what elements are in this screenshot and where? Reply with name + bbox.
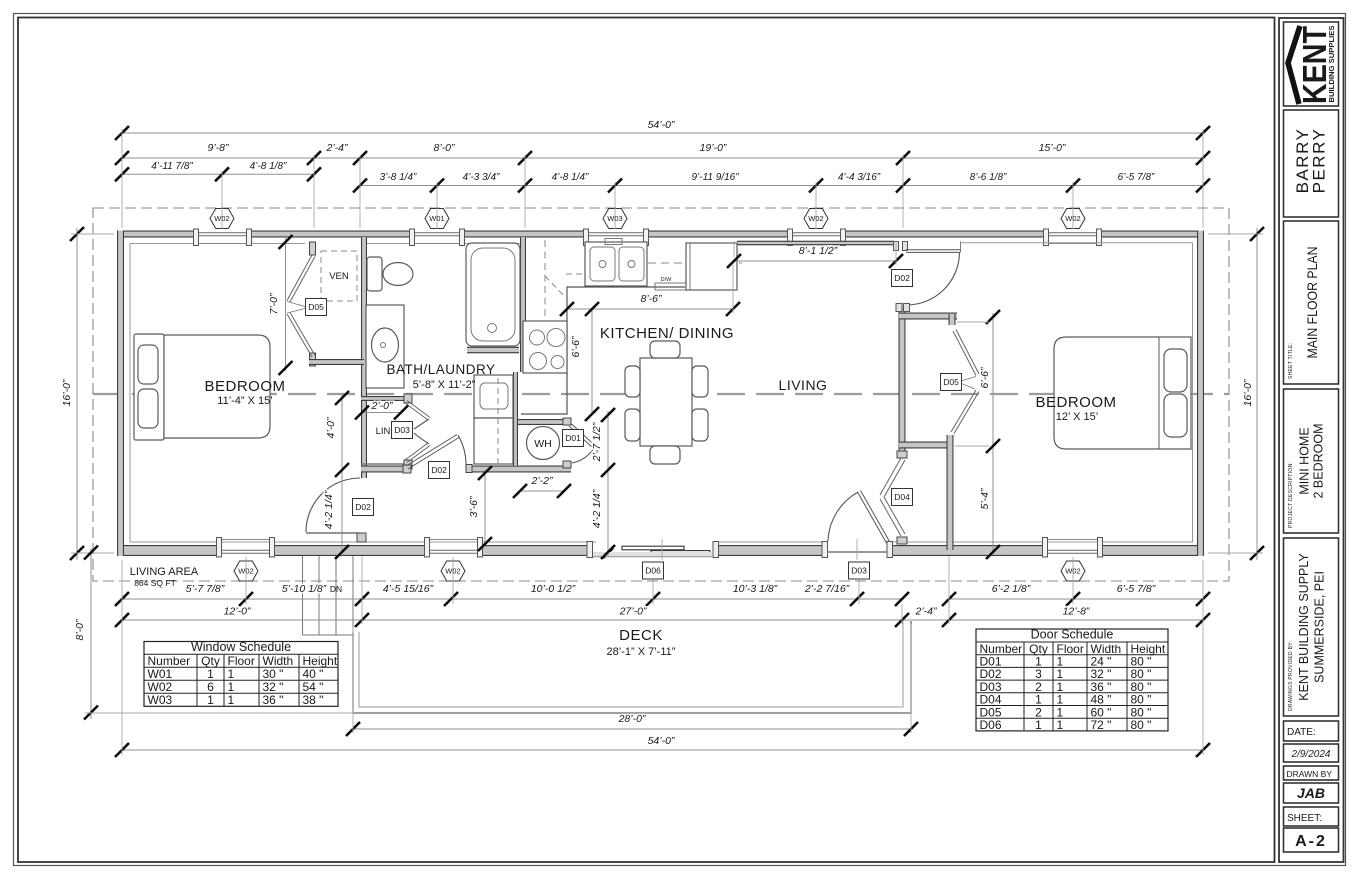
svg-text:3’-8 1/4”: 3’-8 1/4” xyxy=(380,172,417,183)
svg-text:W02: W02 xyxy=(238,567,253,576)
svg-text:2’-2”: 2’-2” xyxy=(530,475,553,487)
svg-text:1: 1 xyxy=(228,680,235,694)
svg-text:1: 1 xyxy=(207,667,214,681)
svg-text:6’-6”: 6’-6” xyxy=(979,367,991,389)
svg-text:2’-2 7/16”: 2’-2 7/16” xyxy=(804,583,850,595)
svg-text:VEN: VEN xyxy=(329,271,349,282)
svg-text:32 ": 32 " xyxy=(263,680,284,694)
svg-text:4’-2 1/4”: 4’-2 1/4” xyxy=(591,489,603,528)
svg-text:16’-0”: 16’-0” xyxy=(61,379,73,406)
svg-text:LIN: LIN xyxy=(376,426,391,437)
svg-text:BATH/LAUNDRY: BATH/LAUNDRY xyxy=(386,362,495,377)
svg-text:40 ": 40 " xyxy=(303,667,324,681)
svg-text:3’-6”: 3’-6” xyxy=(468,496,480,518)
svg-text:D06: D06 xyxy=(980,718,1002,732)
svg-text:BEDROOM: BEDROOM xyxy=(1035,394,1116,411)
svg-text:Height: Height xyxy=(303,654,338,668)
svg-text:Door Schedule: Door Schedule xyxy=(1031,628,1114,642)
svg-text:4’-11 7/8”: 4’-11 7/8” xyxy=(151,161,193,172)
svg-text:8’-6”: 8’-6” xyxy=(640,293,662,305)
svg-text:LIVING: LIVING xyxy=(779,377,828,393)
svg-text:DN: DN xyxy=(330,584,342,594)
svg-text:72 ": 72 " xyxy=(1091,718,1112,732)
svg-text:MINI HOME: MINI HOME xyxy=(1298,427,1312,494)
svg-text:D03: D03 xyxy=(394,425,410,435)
svg-text:1: 1 xyxy=(228,693,235,707)
svg-text:WH: WH xyxy=(534,438,552,450)
svg-text:4’-8 1/4”: 4’-8 1/4” xyxy=(552,172,589,183)
svg-text:30 ": 30 " xyxy=(263,667,284,681)
svg-text:2’-4”: 2’-4” xyxy=(325,142,348,154)
svg-text:PERRY: PERRY xyxy=(1310,128,1329,194)
svg-text:80 ": 80 " xyxy=(1131,718,1152,732)
svg-text:W02: W02 xyxy=(148,680,173,694)
svg-text:1: 1 xyxy=(1035,718,1042,732)
svg-text:9’-11 9/16”: 9’-11 9/16” xyxy=(691,172,739,183)
svg-text:5’-8” X 11’-2”: 5’-8” X 11’-2” xyxy=(413,379,476,391)
svg-text:4’-8 1/8”: 4’-8 1/8” xyxy=(250,161,287,172)
svg-text:4’-2 1/4”: 4’-2 1/4” xyxy=(323,490,335,529)
svg-text:19’-0”: 19’-0” xyxy=(700,142,727,154)
svg-text:2’-4”: 2’-4” xyxy=(914,606,937,618)
svg-text:SUMMERSIDE, PEI: SUMMERSIDE, PEI xyxy=(1313,571,1327,683)
svg-text:2’-0”: 2’-0” xyxy=(370,400,393,412)
svg-text:D02: D02 xyxy=(894,273,910,283)
svg-text:8’-6 1/8”: 8’-6 1/8” xyxy=(970,172,1007,183)
svg-text:10’-3 1/8”: 10’-3 1/8” xyxy=(733,583,778,595)
svg-text:Qty: Qty xyxy=(201,654,220,668)
svg-text:4’-4 3/16”: 4’-4 3/16” xyxy=(838,172,881,183)
svg-text:6’-2 1/8”: 6’-2 1/8” xyxy=(992,583,1031,595)
svg-text:15’-0”: 15’-0” xyxy=(1039,142,1066,154)
svg-text:1: 1 xyxy=(207,693,214,707)
svg-text:2 BEDROOM: 2 BEDROOM xyxy=(1312,423,1326,498)
svg-text:8’-0”: 8’-0” xyxy=(433,142,455,154)
svg-text:D/W: D/W xyxy=(661,277,673,283)
svg-text:5’-10 1/8”: 5’-10 1/8” xyxy=(282,583,327,595)
svg-text:W02: W02 xyxy=(808,214,823,223)
svg-text:SHEET:: SHEET: xyxy=(1287,813,1322,824)
svg-text:28’-0”: 28’-0” xyxy=(618,713,646,725)
svg-text:54’-0”: 54’-0” xyxy=(648,119,675,131)
svg-text:Floor: Floor xyxy=(228,654,255,668)
svg-text:38 ": 38 " xyxy=(303,693,324,707)
svg-text:12’ X 15’: 12’ X 15’ xyxy=(1056,411,1098,423)
svg-text:6’-5 7/8”: 6’-5 7/8” xyxy=(1118,172,1155,183)
svg-text:Window Schedule: Window Schedule xyxy=(191,640,291,654)
svg-text:4’-0”: 4’-0” xyxy=(325,417,337,439)
svg-text:4’-5 15/16”: 4’-5 15/16” xyxy=(383,583,434,595)
svg-text:864 SQ FT: 864 SQ FT xyxy=(134,578,176,588)
svg-text:MAIN FLOOR PLAN: MAIN FLOOR PLAN xyxy=(1304,247,1320,359)
svg-text:54 ": 54 " xyxy=(303,680,324,694)
svg-text:1: 1 xyxy=(228,667,235,681)
svg-text:5’-7 7/8”: 5’-7 7/8” xyxy=(186,583,225,595)
svg-text:8’-0”: 8’-0” xyxy=(74,619,86,641)
svg-text:DATE:: DATE: xyxy=(1287,727,1316,738)
svg-text:10’-0 1/2”: 10’-0 1/2” xyxy=(531,583,576,595)
svg-text:W02: W02 xyxy=(1065,214,1080,223)
svg-text:16’-0”: 16’-0” xyxy=(1242,379,1254,406)
svg-text:LIVING AREA: LIVING AREA xyxy=(130,566,199,578)
svg-text:28’-1” X 7’-11”: 28’-1” X 7’-11” xyxy=(607,646,676,658)
svg-text:SHEET TITLE:: SHEET TITLE: xyxy=(1288,343,1294,379)
svg-text:W02: W02 xyxy=(1065,567,1080,576)
svg-text:6’-6”: 6’-6” xyxy=(570,336,582,358)
svg-text:BUILDING SUPPLIES: BUILDING SUPPLIES xyxy=(1327,26,1336,103)
svg-text:Number: Number xyxy=(148,654,191,668)
svg-text:KITCHEN/ DINING: KITCHEN/ DINING xyxy=(600,325,734,342)
svg-text:D02: D02 xyxy=(355,502,371,512)
svg-text:BEDROOM: BEDROOM xyxy=(204,378,285,395)
svg-text:W02: W02 xyxy=(214,214,229,223)
svg-text:27’-0”: 27’-0” xyxy=(619,606,647,618)
svg-text:D05: D05 xyxy=(308,302,324,312)
svg-text:4’-3 3/4”: 4’-3 3/4” xyxy=(463,172,500,183)
svg-text:7’-0”: 7’-0” xyxy=(268,293,280,315)
svg-text:D04: D04 xyxy=(894,492,910,502)
svg-text:Width: Width xyxy=(263,654,294,668)
svg-text:8’-1 1/2”: 8’-1 1/2” xyxy=(799,245,838,257)
svg-text:W03: W03 xyxy=(607,214,622,223)
svg-text:1: 1 xyxy=(1057,718,1064,732)
svg-text:D05: D05 xyxy=(943,377,959,387)
svg-text:9’-8”: 9’-8” xyxy=(207,142,229,154)
svg-text:DRAWINGS PROVIDED BY:: DRAWINGS PROVIDED BY: xyxy=(1288,641,1294,711)
svg-text:W01: W01 xyxy=(429,214,444,223)
svg-text:2/9/2024: 2/9/2024 xyxy=(1291,749,1331,760)
svg-text:36 ": 36 " xyxy=(263,693,284,707)
svg-text:54’-0”: 54’-0” xyxy=(648,735,675,747)
svg-text:2’-7 1/2”: 2’-7 1/2” xyxy=(591,422,603,462)
svg-text:12’-8”: 12’-8” xyxy=(1063,606,1090,618)
svg-text:W02: W02 xyxy=(445,567,460,576)
svg-text:D01: D01 xyxy=(565,433,581,443)
svg-text:6: 6 xyxy=(207,680,214,694)
svg-text:W01: W01 xyxy=(148,667,173,681)
svg-text:DECK: DECK xyxy=(619,627,663,644)
svg-text:11’-4” X 15’: 11’-4” X 15’ xyxy=(217,395,272,407)
svg-text:PROJECT DESCRIPTION:: PROJECT DESCRIPTION: xyxy=(1288,462,1294,528)
svg-text:DRAWN BY: DRAWN BY xyxy=(1287,769,1333,779)
svg-text:JAB: JAB xyxy=(1297,785,1325,801)
svg-text:A-2: A-2 xyxy=(1295,833,1327,850)
svg-text:D06: D06 xyxy=(645,565,661,575)
svg-text:D02: D02 xyxy=(431,465,447,475)
svg-text:6’-5 7/8”: 6’-5 7/8” xyxy=(1117,583,1156,595)
svg-text:KENT BUILDING SUPPLY: KENT BUILDING SUPPLY xyxy=(1297,553,1311,701)
svg-text:12’-0”: 12’-0” xyxy=(224,606,251,618)
svg-text:D03: D03 xyxy=(851,565,867,575)
svg-text:W03: W03 xyxy=(148,693,173,707)
svg-text:5’-4”: 5’-4” xyxy=(979,488,991,510)
